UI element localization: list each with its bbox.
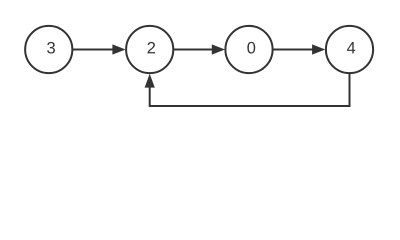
label 3 bbox=[47, 42, 55, 54]
node 4 (circle) bbox=[326, 26, 373, 73]
wire: arrow 2 to 0 bbox=[173, 44, 225, 54]
label 4 bbox=[347, 42, 355, 53]
label 2 bbox=[148, 42, 156, 54]
wire: arrow 3 to 2 bbox=[72, 44, 125, 54]
label 0 bbox=[247, 42, 255, 54]
node 3 (circle) bbox=[25, 26, 72, 73]
node 2 (circle) bbox=[126, 26, 173, 73]
wire: feedback arrow 4 to 2 bbox=[145, 73, 350, 106]
wire: arrow 0 to 4 bbox=[273, 44, 326, 54]
node 0 (circle) bbox=[225, 26, 272, 73]
